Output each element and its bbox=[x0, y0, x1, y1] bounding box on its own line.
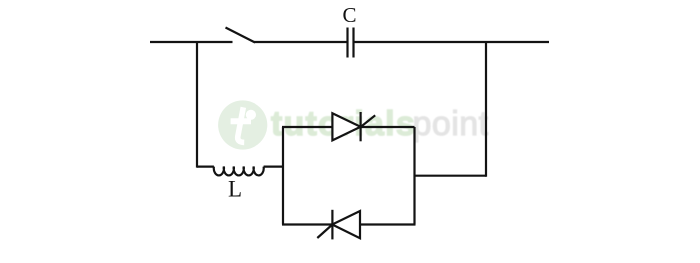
wire box right edge bbox=[413, 127, 415, 225]
thyristor bottom: cathode bar bbox=[331, 210, 333, 240]
wire box to right vertical bbox=[415, 175, 487, 177]
capacitor C plates bbox=[346, 28, 348, 58]
svg-text:L: L bbox=[228, 177, 242, 202]
wire top-left bbox=[150, 41, 233, 43]
thyristor top: triangle bbox=[332, 113, 360, 140]
wire top-right bbox=[354, 41, 550, 43]
thyristor top: cathode bar bbox=[360, 112, 362, 141]
wire inductor stub left bbox=[197, 166, 214, 168]
wire left vertical bbox=[196, 42, 198, 168]
thyristor top: gate bbox=[361, 115, 376, 127]
watermark logo circle bbox=[218, 100, 267, 149]
wire top-middle bbox=[254, 41, 348, 43]
inductor L humps bbox=[214, 167, 264, 176]
wire inductor stub right bbox=[264, 166, 284, 168]
thyristor bottom: triangle bbox=[332, 211, 360, 238]
svg-text:point: point bbox=[413, 105, 489, 143]
wire box top edge bbox=[282, 126, 415, 128]
svg-text:C: C bbox=[342, 3, 356, 27]
thyristor bottom: gate bbox=[317, 225, 332, 239]
wire box left edge bbox=[282, 127, 284, 225]
wire box bottom edge bbox=[282, 223, 416, 225]
wire right vertical bbox=[485, 42, 487, 177]
switch S blade bbox=[226, 28, 256, 43]
